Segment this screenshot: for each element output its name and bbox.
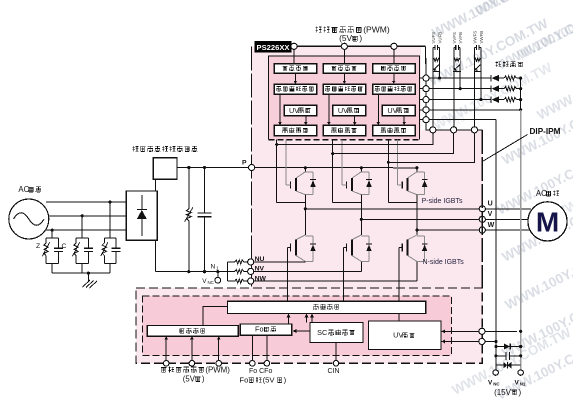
pin chain segment	[425, 103, 427, 107]
FS row to right dashed border	[478, 129, 483, 131]
arrow UV->drive col1	[305, 116, 307, 123]
transistor P-side IGBT 3 with freewheel diode	[416, 168, 418, 172]
pin circle right-edge pin 4	[423, 107, 429, 113]
module left dashed border	[251, 46, 253, 288]
filter group 3 tap wire	[109, 202, 111, 238]
terminal VNC bottom	[493, 370, 498, 375]
capacitor C3	[115, 238, 117, 248]
svg-text:PS226XX: PS226XX	[257, 43, 290, 52]
filter group 1 bottom bracket	[46, 262, 58, 264]
shunt resistor NV	[228, 270, 235, 272]
FS row segment	[457, 129, 472, 131]
smoothing capacitor on DC link	[204, 168, 206, 214]
label lower-arm input signal (PWM)	[161, 368, 166, 373]
wire AC line mid	[49, 215, 126, 217]
arrow SC protect to drive circuit 2	[311, 317, 313, 323]
transistor N-side IGBT 3 with freewheel diode	[416, 230, 418, 235]
UV circuit block col3	[382, 105, 415, 116]
capacitor supply	[496, 355, 506, 357]
svg-text:U: U	[488, 201, 493, 208]
filter group 3 top bracket	[104, 237, 116, 239]
pin circle PWM input 3	[391, 43, 397, 49]
filter group 1 top bracket	[46, 237, 58, 239]
label upper-arm input signal (PWM) 5V	[315, 27, 321, 33]
svg-text:1: 1	[216, 265, 219, 270]
svg-text:UV: UV	[393, 331, 403, 340]
pin circle lower PWM input 3	[216, 361, 222, 367]
pin circle UV sense 1	[479, 328, 485, 334]
Fo logic block	[240, 324, 292, 335]
svg-text:DIP-IPM: DIP-IPM	[530, 127, 561, 136]
svg-text:W: W	[488, 222, 495, 229]
wire VWFS down to FS pin	[474, 48, 476, 127]
svg-text:(5V: (5V	[339, 33, 352, 43]
part label PS226XX	[255, 41, 292, 53]
label bootstrap circuit (zi-ju dian-lu)	[495, 61, 501, 67]
wire AC line bottom	[46, 229, 126, 231]
svg-text:(15V: (15V	[494, 388, 512, 397]
SC protection block	[310, 323, 363, 343]
svg-text:C: C	[62, 243, 67, 250]
motor M	[528, 202, 567, 241]
pin chain segment	[425, 92, 427, 97]
wire PWM input 1 to input circuit	[293, 49, 295, 63]
diode bootstrap D1	[490, 75, 492, 81]
bootstrap series resistor 3	[480, 48, 482, 57]
ground symbol	[83, 280, 91, 287]
surge absorber supply	[496, 364, 503, 366]
level shift block col3 (dian-ping zhuan-huan dian-lu)	[373, 84, 416, 94]
arrow levelshift->drive col3	[377, 94, 379, 122]
svg-text:VWFS: VWFS	[473, 31, 478, 44]
terminal VNC stub	[217, 272, 219, 278]
wire phase U to output pin	[305, 208, 479, 210]
svg-text:(5V: (5V	[183, 375, 196, 384]
arrow SC protect to Fo logic	[296, 330, 310, 332]
wire NV row	[254, 270, 361, 272]
wire lower PWM input 1	[165, 336, 167, 360]
wire gate drive col2	[341, 140, 343, 185]
arrow input->levelshift col1	[294, 73, 296, 81]
drive circuit block col1 (qu-dong dian-lu)	[274, 125, 317, 136]
inrush current prevention box	[153, 158, 177, 180]
svg-text:VWFB: VWFB	[479, 31, 484, 44]
wire N-side gate drive col1	[287, 248, 289, 302]
drive circuit block col2 (qu-dong dian-lu)	[323, 125, 365, 136]
terminal VN1 bottom	[518, 370, 523, 375]
pin circle right-edge pin 5	[423, 117, 429, 123]
wire lower PWM input 2	[191, 336, 193, 360]
pin circle right-edge pin 3	[423, 97, 429, 103]
svg-text:UV: UV	[289, 106, 299, 115]
bootstrap series diode 1	[434, 65, 439, 70]
pin circle PWM input 1	[291, 43, 297, 49]
wire lower PWM input 3	[218, 336, 220, 360]
pin circle PWM input 2	[341, 43, 347, 49]
pin circle UV sense 2	[479, 338, 485, 344]
wire emitter sense col1	[276, 140, 278, 203]
wire P rail inside module	[255, 167, 417, 169]
pin circle lower PWM input 2	[189, 361, 195, 367]
resistor bootstrap R1	[504, 76, 516, 80]
transistor P-side IGBT 2 with freewheel diode	[360, 168, 362, 172]
wire emitter sense col2	[332, 140, 334, 203]
decor watermark	[245, 0, 573, 403]
transistor N-side IGBT 2 with freewheel diode	[360, 219, 362, 235]
wire AC line top	[46, 201, 126, 203]
svg-text:): )	[359, 33, 362, 43]
input circuit block col1 (shu-ru dian-lu)	[274, 64, 317, 74]
filter group 2 bottom bracket	[76, 262, 88, 264]
wire input circuit to drive circuit	[203, 306, 227, 325]
wire Fo terminal 1	[251, 335, 253, 360]
svg-text:P-side IGBTs: P-side IGBTs	[422, 198, 463, 205]
wire phase V to output pin	[361, 218, 479, 220]
bridge rectifier	[126, 191, 157, 240]
module bottom-section inner pink box	[143, 296, 452, 355]
surge resistor on DC link	[188, 168, 190, 209]
pin circle Fo terminal 1	[250, 361, 256, 367]
level shift block col1 (dian-ping zhuan-huan dian-lu)	[274, 84, 317, 94]
label inrush current prevention circuit	[133, 146, 139, 152]
filter ground bus	[52, 272, 110, 274]
svg-text:AC: AC	[536, 189, 547, 198]
arrow Fo logic to drive circuit	[288, 317, 290, 324]
wire bootstrap row 3	[429, 99, 491, 101]
wire UV sense from VNC	[441, 341, 496, 343]
wire bootstrap row 1	[429, 77, 491, 79]
wire bus to ground	[87, 273, 89, 281]
bootstrap capacitor VUFS/VUFB	[433, 47, 435, 49]
svg-text:UV: UV	[387, 106, 397, 115]
arrow input->levelshift col3	[393, 73, 395, 81]
transistor P-side IGBT 1 with freewheel diode	[304, 168, 306, 172]
AC source circle	[9, 199, 49, 239]
wire P rail from inrush box to P pin	[177, 167, 249, 169]
svg-text:Fo CFo: Fo CFo	[249, 368, 272, 375]
svg-text:VUFS: VUFS	[431, 32, 436, 44]
bootstrap series resistor 1	[439, 48, 441, 57]
pin stub right-edge pin 2	[419, 88, 423, 90]
wire PWM input 2 to input circuit	[343, 49, 345, 63]
upper control IC block	[269, 56, 420, 140]
svg-text:(5V: (5V	[263, 376, 276, 385]
svg-text:N: N	[211, 263, 216, 270]
drive circuit block col3 (qu-dong dian-lu)	[373, 125, 416, 136]
wire W to motor	[485, 229, 531, 231]
pin chain segment	[425, 81, 427, 85]
wire rectifier to inrush box	[154, 179, 156, 191]
wire Fo terminal 2	[266, 335, 268, 360]
UV circuit block bottom	[369, 321, 442, 350]
input circuit block bottom	[147, 326, 238, 337]
pin circle lower PWM input 1	[163, 361, 169, 367]
varistor Z2	[75, 238, 77, 243]
svg-text:): )	[519, 388, 522, 397]
pin circle right-edge pin 2	[423, 86, 429, 92]
wire N-side gate drive col2	[343, 248, 345, 302]
pin circle NU	[248, 259, 254, 265]
level shift block col2 (dian-ping zhuan-huan dian-lu)	[323, 84, 365, 94]
pin chain segment	[425, 113, 427, 117]
svg-text:Fo: Fo	[239, 376, 248, 385]
wire VVFS down to FS pin	[453, 48, 455, 127]
wire PWM input 3 to input circuit	[393, 49, 395, 63]
module bottom-section outer dashed box	[136, 288, 482, 363]
arrow levelshift->drive col2	[328, 94, 330, 122]
diode bootstrap D3	[490, 96, 492, 102]
wire VD supply row 4	[429, 109, 521, 111]
bootstrap series diode 3	[475, 65, 480, 70]
filter group 2 top bracket	[76, 237, 88, 239]
svg-text:VUFB: VUFB	[438, 32, 443, 44]
pin stub right-edge pin 3	[419, 99, 423, 101]
svg-text:NC: NC	[208, 280, 214, 285]
svg-text:NC: NC	[493, 381, 500, 386]
FS row segment	[436, 129, 451, 131]
wire VxFS 3 to emitter sense	[388, 133, 474, 162]
pin chain top right corner	[425, 46, 428, 75]
wire CIN terminal	[335, 343, 337, 361]
pin chain to FS row	[426, 123, 430, 130]
shunt resistor NW	[228, 280, 235, 282]
pin circle Fo terminal 2	[264, 361, 270, 367]
filter group 3 bottom bracket	[104, 262, 116, 264]
UV circuit block col1	[284, 105, 317, 116]
svg-text:AC: AC	[18, 185, 29, 194]
diode supply	[496, 346, 504, 348]
svg-text:VVFB: VVFB	[458, 32, 463, 44]
pin circle VxFS hop 3	[471, 127, 477, 133]
UV circuit block col2	[333, 105, 366, 116]
svg-text:): )	[202, 375, 205, 384]
wire gate drive col3	[397, 140, 399, 185]
pin circle right-edge pin 1	[423, 75, 429, 81]
filter group 1 tap wire	[51, 230, 53, 238]
svg-text:UV: UV	[338, 106, 348, 115]
filter group 2 tap wire	[81, 216, 83, 238]
wire bootstrap row 2	[429, 88, 491, 90]
pin stub right-edge pin 1	[419, 77, 423, 79]
DIP-IPM module pink region	[252, 46, 483, 288]
shunt resistor NU	[228, 261, 235, 263]
wire UV sense from VN1	[441, 330, 517, 332]
wire V to motor	[485, 218, 531, 220]
drive circuit block bottom (qu-dong dian-lu)	[228, 301, 426, 313]
wire VUFS down to FS pin	[432, 48, 434, 127]
bootstrap capacitor VWFS/VWFB	[475, 47, 477, 49]
svg-text:Fo: Fo	[255, 325, 264, 334]
wire NW row	[254, 280, 417, 282]
label DIP-IPM with pointer	[482, 135, 528, 163]
svg-text:(PWM): (PWM)	[205, 365, 230, 374]
svg-text:VVFS: VVFS	[452, 32, 457, 44]
module top border	[255, 45, 426, 47]
pin circle P	[249, 164, 255, 170]
svg-text:(PWM): (PWM)	[363, 25, 390, 35]
wire VN1 15V vertical	[520, 78, 522, 110]
svg-text:SC: SC	[317, 328, 327, 337]
svg-text:CIN: CIN	[328, 368, 340, 375]
wire N-side gate drive col3	[398, 248, 400, 302]
right dashed border	[481, 130, 483, 288]
wire U to motor	[485, 208, 531, 210]
pin circle CIN	[333, 361, 339, 367]
wire N rail bottom	[154, 240, 156, 272]
wire phase W to output pin	[417, 229, 479, 231]
resistor bootstrap R3	[504, 97, 516, 101]
varistor Z1	[45, 238, 47, 243]
svg-text:V: V	[488, 211, 493, 218]
svg-text:): )	[284, 376, 287, 385]
wire VNC vertical	[495, 120, 497, 370]
pin stub right-edge pin 5	[419, 119, 423, 121]
shunt resistor bus	[227, 262, 229, 281]
input circuit block col2 (shu-ru dian-lu)	[323, 64, 365, 74]
svg-text:N-side IGBTs: N-side IGBTs	[423, 259, 465, 266]
arrow levelshift->drive col1	[279, 94, 281, 122]
pin circle VxFS hop 2	[451, 127, 457, 133]
varistor Z3	[103, 238, 105, 243]
pin stub right-edge pin 4	[419, 109, 423, 111]
pin circle NV	[248, 268, 254, 274]
wire VxFS 2 to emitter sense	[333, 133, 454, 154]
wire UV circuit to drive circuit	[398, 314, 400, 321]
wire NU row	[254, 261, 305, 263]
transistor N-side IGBT 1 with freewheel diode	[304, 209, 306, 235]
wire emitter sense col3	[387, 140, 389, 203]
pin circle V	[479, 216, 485, 222]
svg-text:Z: Z	[36, 243, 40, 250]
svg-text:P: P	[242, 159, 247, 166]
input circuit block col3 (shu-ru dian-lu)	[373, 64, 416, 74]
bootstrap series resistor 2	[459, 48, 461, 57]
resistor bootstrap R2	[504, 87, 516, 91]
FS row segment	[429, 129, 431, 131]
wire VxFS 1 to emitter sense	[277, 133, 433, 145]
arrow UV->drive col2	[354, 116, 356, 123]
bootstrap capacitor VVFS/VVFB	[454, 47, 456, 49]
bootstrap series diode 2	[454, 65, 459, 70]
capacitor C2	[87, 238, 89, 248]
svg-text:M: M	[536, 207, 559, 238]
pin circle NW	[248, 278, 254, 284]
wire VNC row 5 to right	[429, 119, 496, 121]
wire gate drive col1	[285, 140, 287, 185]
diode bootstrap D2	[490, 86, 492, 92]
pin circle U	[479, 206, 485, 212]
capacitor C1	[57, 238, 59, 248]
pin circle W	[479, 227, 485, 233]
arrow input->levelshift col2	[343, 73, 345, 81]
svg-text:N1: N1	[520, 381, 526, 386]
pin circle VxFS hop 1	[430, 127, 436, 133]
arrow UV->drive col3	[403, 116, 405, 123]
arrow SC protect to drive circuit 1	[306, 317, 308, 323]
